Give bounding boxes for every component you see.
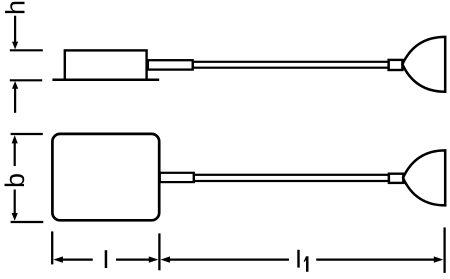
arm segment 2 (thin flex tube, side view) [193, 62, 389, 68]
svg-text:h: h [0, 0, 30, 15]
l1 right extension line [443, 227, 445, 273]
arm segment 1 (front view) [160, 173, 194, 182]
driver box (side view) [65, 50, 147, 79]
l dimension line with arrows [53, 256, 63, 262]
arm segment 2 (front view) [194, 175, 389, 181]
label l1 [297, 250, 299, 268]
label l [105, 250, 108, 268]
lamp head (front view) [403, 150, 445, 205]
l middle extension line [158, 233, 160, 270]
b dimension line with outward arrows, broken for label [12, 135, 18, 143]
svg-text:b: b [0, 173, 30, 188]
mounting baseline [52, 79, 159, 82]
arm segment 1 (thick stem, side view) [148, 60, 193, 69]
lamp head (side view) [402, 37, 445, 92]
h dimension line lower part with up arrow [12, 81, 18, 89]
h dimension line upper part with down arrow [14, 16, 16, 45]
b extension line bottom [11, 221, 44, 223]
l left extension line [51, 231, 53, 264]
driver box (front view, rounded) [52, 134, 159, 220]
connector sleeve (side view) [389, 60, 403, 70]
b extension line top [11, 133, 43, 135]
connector sleeve (front view) [389, 174, 403, 183]
l1 dimension line with arrows [161, 256, 171, 262]
h extension line top (box top level) [10, 49, 43, 51]
h extension line bottom (baseline level) [10, 79, 42, 81]
